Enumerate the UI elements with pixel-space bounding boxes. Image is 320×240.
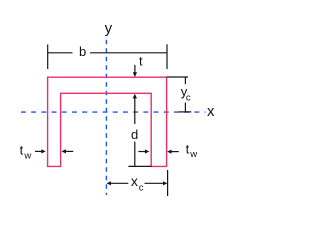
right t_w: outer left-pointing arrowhead [167, 150, 171, 154]
right t_w: outer left-pointing arrow shaft [171, 151, 179, 153]
dimension b: right extension tick [166, 44, 168, 69]
dimension t: down arrow shaft [134, 65, 136, 73]
svg-text:x: x [131, 173, 138, 189]
dimension y_c: top reference line [167, 76, 188, 78]
left t_w: outer right-pointing arrowhead [41, 149, 45, 153]
svg-text:c: c [139, 182, 144, 193]
svg-text:b: b [79, 44, 86, 59]
dimension d: up arrowhead [133, 94, 137, 99]
right t_w: inner right-pointing arrow shaft [138, 151, 145, 153]
channel cross-section diagram [0, 0, 224, 225]
y axis (dashed blue centroidal axis) [105, 40, 107, 195]
dimension x_c: left arrowhead (points left at y axis) [107, 181, 111, 185]
dimension d: bottom cross tick [128, 165, 151, 167]
svg-text:w: w [189, 149, 197, 160]
channel section outline (flanges down, pink) [48, 77, 167, 166]
dimension d: upper shaft [134, 98, 136, 124]
left t_w: outer right-pointing arrow shaft [35, 150, 42, 152]
left t_w: inner left-pointing arrowhead [62, 149, 66, 153]
dimension x_c: right shaft [145, 182, 164, 184]
svg-text:x: x [207, 103, 215, 120]
dimension x_c: left shaft [110, 182, 128, 184]
right t_w: inner right-pointing arrowhead [145, 149, 149, 153]
svg-text:c: c [186, 92, 191, 103]
svg-text:y: y [105, 20, 113, 37]
x axis (dashed blue centroidal axis) [21, 111, 206, 113]
dimension y_c: lower tick [184, 103, 186, 112]
dimension b: line right segment [90, 52, 167, 54]
left t_w: inner left-pointing arrow shaft [65, 150, 73, 152]
dimension y_c: bottom cross tick [178, 111, 191, 113]
svg-text:t: t [20, 143, 24, 158]
svg-text:t: t [186, 141, 190, 156]
dimension b: line left segment [48, 52, 73, 54]
dimension b: left extension tick [47, 45, 49, 70]
svg-text:t: t [139, 54, 143, 69]
dimension x_c: right extension tick [167, 170, 169, 196]
dimension y_c: upper tick [184, 77, 186, 84]
dimension t: down arrowhead [133, 72, 137, 77]
svg-text:w: w [23, 150, 31, 161]
dimension d: lower shaft [134, 142, 136, 167]
dimension x_c: right arrowhead [163, 181, 167, 185]
svg-text:d: d [131, 127, 138, 142]
